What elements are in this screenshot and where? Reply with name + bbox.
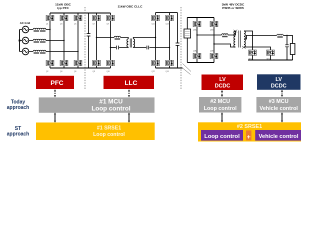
svg-text:Q11: Q11 <box>152 24 155 26</box>
svg-text:11kW OBC CLLC: 11kW OBC CLLC <box>118 5 144 9</box>
svg-text:Loop control: Loop control <box>91 106 130 113</box>
svg-text:Q7: Q7 <box>93 24 95 26</box>
svg-text:Q9: Q9 <box>107 24 109 26</box>
svg-text:PSFB or SRFB: PSFB or SRFB <box>222 6 244 10</box>
svg-text:#1 SRSE1: #1 SRSE1 <box>97 125 121 131</box>
svg-text:Loop control: Loop control <box>93 132 125 138</box>
svg-text:Q8: Q8 <box>93 71 95 73</box>
svg-text:AC Grid: AC Grid <box>20 21 31 25</box>
svg-text:typ PFC: typ PFC <box>57 6 69 10</box>
svg-text:Q14: Q14 <box>166 71 169 73</box>
svg-text:Q12: Q12 <box>152 71 155 73</box>
svg-text:LV: LV <box>275 77 282 83</box>
svg-text:Q6: Q6 <box>74 71 76 73</box>
svg-text:PFC: PFC <box>51 80 64 87</box>
svg-text:#2 SRSE1: #2 SRSE1 <box>237 124 262 130</box>
svg-text:LV: LV <box>219 77 226 83</box>
svg-text:#3 MCU: #3 MCU <box>269 99 289 105</box>
svg-text:Vehicle control: Vehicle control <box>259 134 299 140</box>
svg-text:Q1: Q1 <box>46 24 48 26</box>
svg-text:Vehicle control: Vehicle control <box>260 106 299 112</box>
svg-text:Q3: Q3 <box>60 24 62 26</box>
svg-text:Loop control: Loop control <box>204 106 237 112</box>
svg-text:approach: approach <box>7 105 30 111</box>
svg-text:Q13: Q13 <box>166 24 169 26</box>
svg-text:Q5: Q5 <box>74 24 76 26</box>
svg-text:Loop control: Loop control <box>204 134 240 140</box>
svg-text:Q10: Q10 <box>107 71 110 73</box>
svg-text:approach: approach <box>7 132 30 138</box>
svg-text:#2 MCU: #2 MCU <box>210 99 230 105</box>
svg-text:+: + <box>247 134 251 141</box>
svg-text:DCDC: DCDC <box>271 84 287 90</box>
svg-text:Q2: Q2 <box>46 71 48 73</box>
svg-text:Q4: Q4 <box>60 71 62 73</box>
svg-text:LLC: LLC <box>125 80 138 87</box>
svg-text:DCDC: DCDC <box>215 84 231 90</box>
svg-text:#1 MCU: #1 MCU <box>99 98 123 105</box>
